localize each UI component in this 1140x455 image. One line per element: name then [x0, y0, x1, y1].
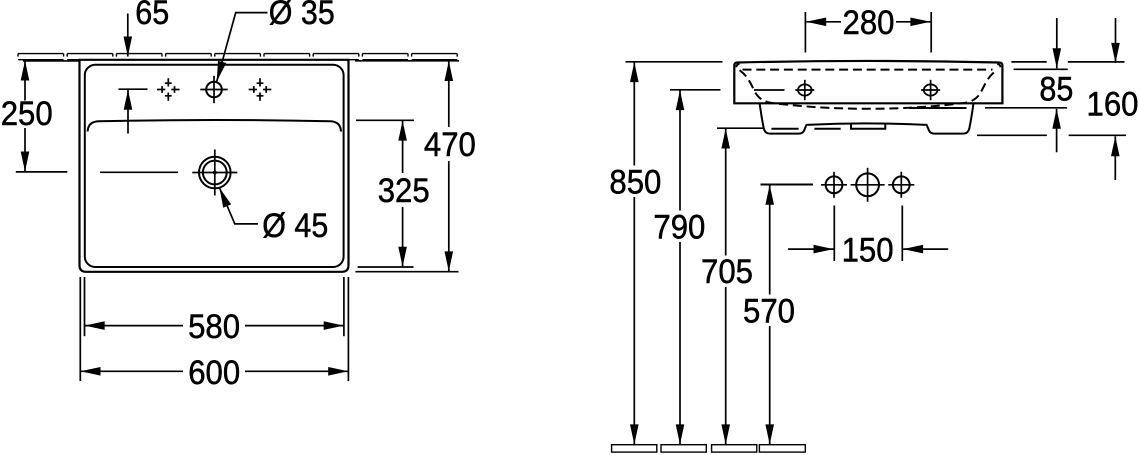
tap hole centre line (front view)	[754, 89, 785, 91]
svg-text:570: 570	[743, 292, 795, 330]
dim 85 up arrow	[1056, 109, 1058, 153]
hidden bowl outline top (dashed)	[743, 69, 993, 71]
svg-text:470: 470	[424, 126, 476, 164]
dim 850 top tick	[626, 61, 723, 63]
dim 570 line	[769, 185, 771, 445]
mounting hole left	[821, 172, 847, 198]
dim 250 bottom tick	[16, 171, 68, 173]
svg-text:65: 65	[135, 0, 169, 32]
drain centre line	[100, 171, 178, 173]
dim 790 line	[679, 90, 681, 444]
dim 160 down arrow	[1115, 18, 1117, 63]
dim 470 bottom extension line	[355, 271, 458, 273]
dim 580 extension lines	[84, 277, 86, 336]
dim 85 down arrow	[1056, 18, 1058, 68]
svg-text:705: 705	[701, 253, 753, 291]
under-rim hidden edge segment right	[909, 107, 967, 109]
svg-text:250: 250	[1, 95, 53, 133]
drain hole centre (front view)	[851, 168, 885, 202]
dim 150 right arrow	[903, 248, 948, 250]
dim 150 extension lines	[833, 206, 835, 262]
dim 325 line	[402, 121, 404, 267]
drain hole Ø45	[192, 150, 237, 196]
dim 470 line	[448, 61, 450, 271]
svg-text:580: 580	[188, 308, 240, 346]
dim 580 line	[85, 325, 344, 327]
leader line Ø45	[219, 188, 258, 224]
dim 85 bottom extension line	[985, 107, 1067, 109]
svg-text:Ø 45: Ø 45	[262, 207, 328, 245]
basin top edge extension right	[355, 60, 459, 62]
dim 705 line	[725, 129, 727, 445]
mounting hole right	[888, 172, 914, 198]
svg-text:600: 600	[188, 354, 240, 392]
svg-text:850: 850	[609, 163, 661, 201]
basin outer rim (top view outline)	[80, 60, 349, 272]
hidden bowl outline (dashed curve)	[740, 70, 997, 109]
basin inner rim (rounded rectangle)	[85, 65, 344, 267]
tap hole right (front view)	[921, 80, 940, 100]
inner corner edge right (solid)	[997, 64, 1000, 67]
svg-text:85: 85	[1039, 70, 1073, 108]
dim 600 line	[81, 370, 349, 372]
wall hatch strips (tiled wall line above basin)	[18, 54, 457, 60]
dim 570 top tick	[761, 183, 813, 185]
svg-text:160: 160	[1087, 86, 1139, 124]
dim 280 right arrow	[896, 21, 930, 23]
dim 325 top tick	[356, 119, 414, 121]
tap hole centre tick	[119, 88, 148, 90]
basin back ledge line	[88, 120, 341, 132]
svg-text:325: 325	[378, 172, 430, 210]
fixing tab	[851, 124, 885, 129]
svg-text:150: 150	[842, 231, 894, 269]
floor hatch strips	[612, 445, 806, 452]
optional tap hole right (cross mark)	[249, 78, 272, 101]
optional tap hole left (cross mark)	[157, 78, 180, 101]
tap hole left (front view)	[795, 80, 814, 100]
dim 250 line	[24, 61, 26, 172]
dim 280 extension lines	[804, 12, 806, 53]
svg-text:Ø 35: Ø 35	[269, 0, 335, 32]
mounting holes centre line	[761, 184, 813, 186]
svg-text:790: 790	[653, 208, 705, 246]
basin rim box (front view)	[734, 61, 1002, 103]
inner corner edge left (solid)	[736, 64, 739, 67]
dim 65 up arrow	[127, 90, 129, 134]
svg-text:280: 280	[843, 4, 895, 42]
dim 705 top tick	[717, 127, 764, 129]
basin top edge extension left	[23, 60, 80, 62]
dim 790 top tick	[670, 89, 721, 91]
hidden back foot edge segments	[771, 128, 798, 130]
pedestal underside outline	[760, 104, 974, 134]
dim 850 line	[633, 62, 635, 444]
dim 150 left arrow	[788, 248, 834, 250]
dim 280 left arrow	[806, 21, 841, 23]
dim 600 extension lines	[79, 277, 81, 381]
leader line Ø35	[217, 13, 268, 82]
dim 325 bottom tick	[358, 266, 414, 268]
dim 160 bottom extension lines	[977, 134, 1047, 136]
dim 160 up arrow	[1114, 136, 1116, 180]
dim 85 top extension lines	[1011, 61, 1046, 63]
main tap hole Ø35	[200, 76, 227, 103]
dim 65 down arrow	[127, 14, 129, 57]
